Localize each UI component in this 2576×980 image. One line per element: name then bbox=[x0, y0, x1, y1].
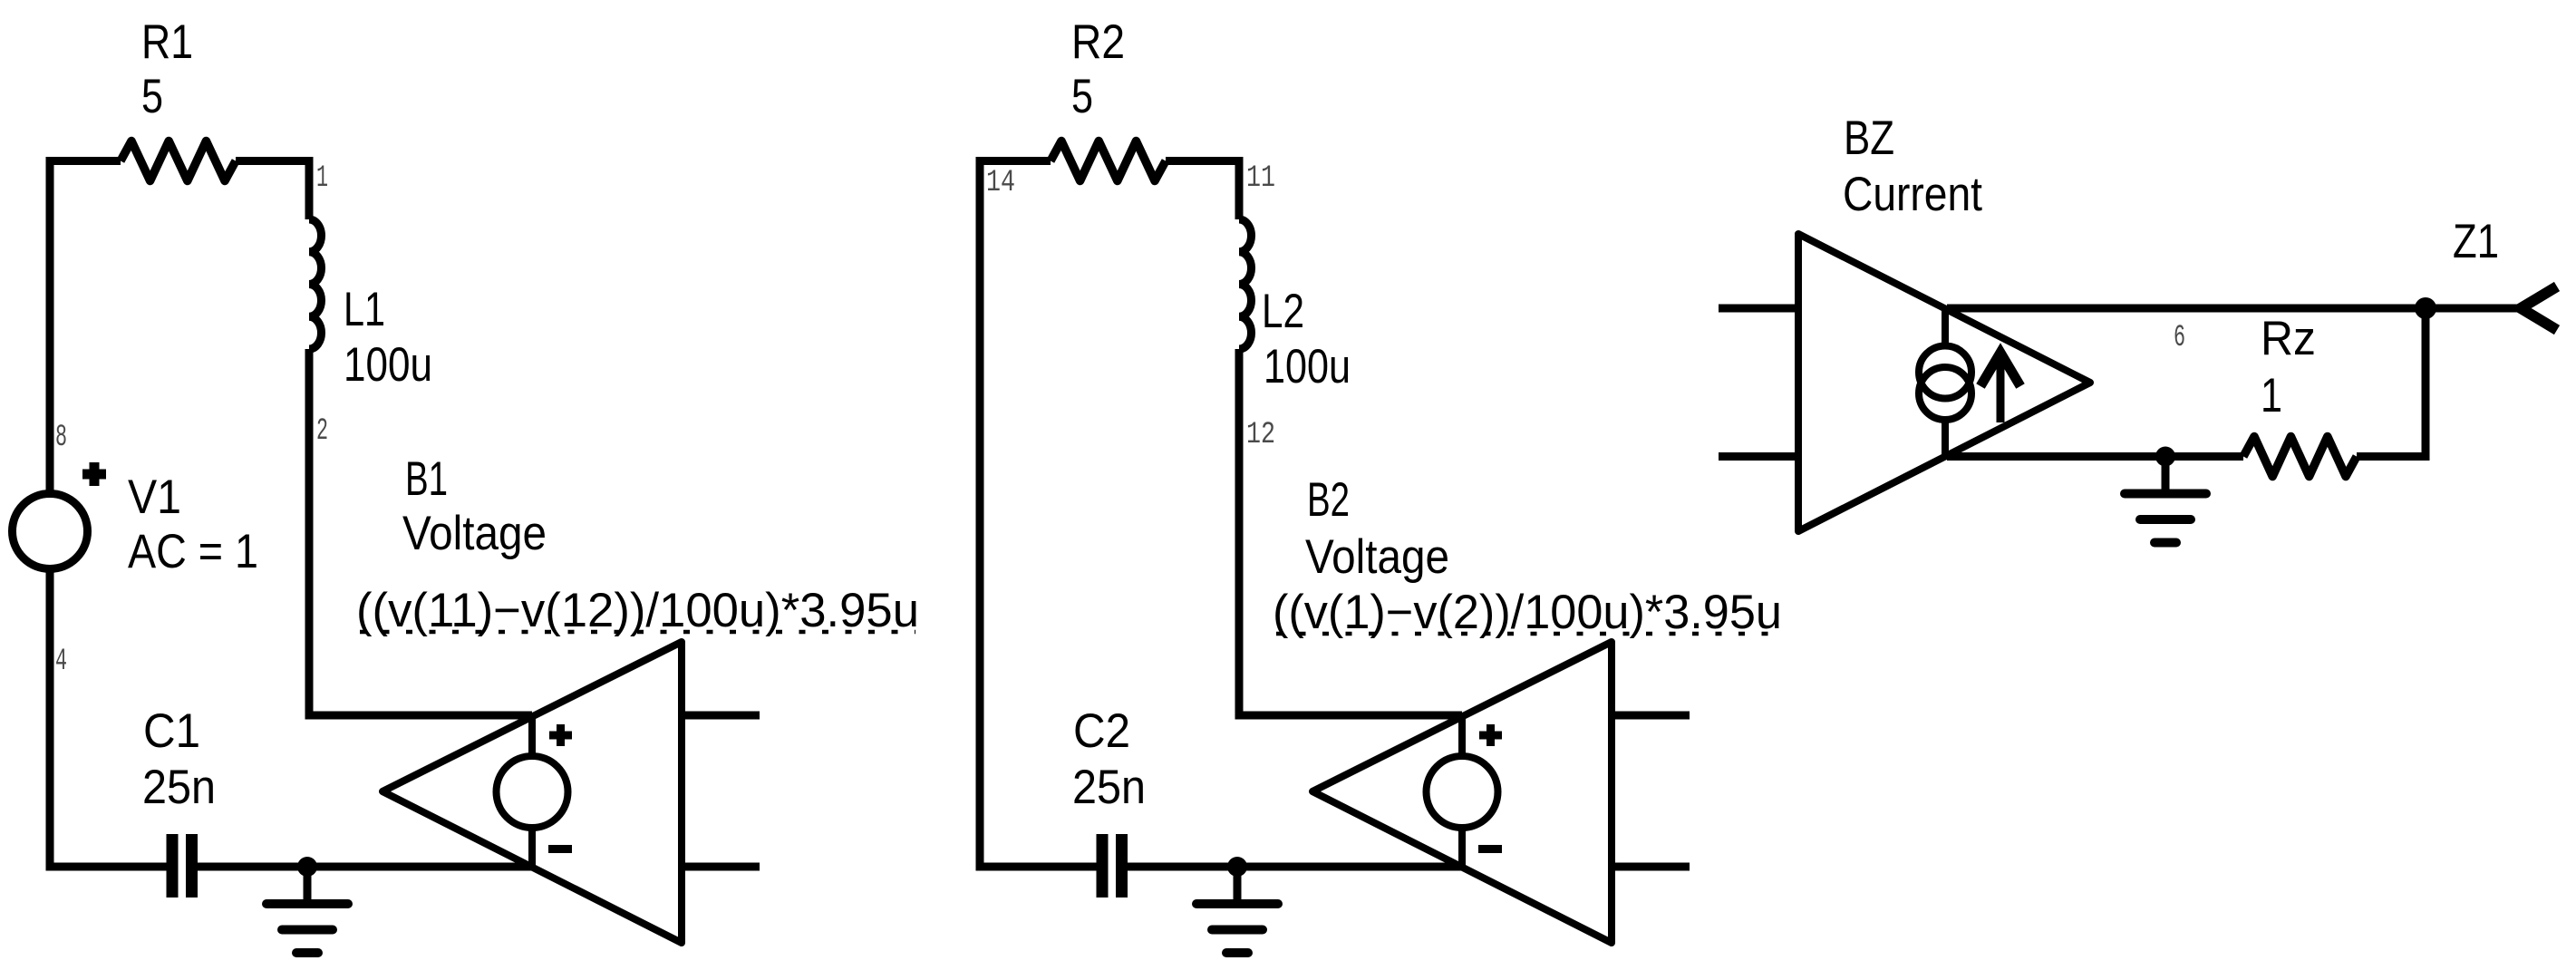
junction node (BZ ground) bbox=[2155, 447, 2175, 467]
wire: V1 bottom to bottom-left corner, right to C1 bbox=[50, 571, 172, 867]
resistor Rz bbox=[2243, 437, 2357, 477]
svg-text:BZ: BZ bbox=[1844, 112, 1894, 165]
wire: C1 to B1 - input bbox=[192, 863, 533, 871]
resistor R2 bbox=[1051, 141, 1166, 181]
behavioral source B1 triangle bbox=[383, 642, 682, 943]
svg-text:5: 5 bbox=[141, 70, 163, 123]
wire: top segment right of R1 bbox=[236, 157, 314, 165]
svg-text:25n: 25n bbox=[142, 761, 216, 814]
svg-text:R1: R1 bbox=[141, 15, 193, 69]
B2 source circle bbox=[1427, 756, 1498, 828]
svg-text:B1: B1 bbox=[405, 452, 448, 506]
BZ triangle bbox=[1798, 234, 2090, 531]
B1 expression dotted underline bbox=[360, 630, 915, 635]
wire: top segment left of R1 bbox=[46, 157, 121, 165]
B1 minus sign bbox=[548, 845, 572, 853]
BZ input wire bottom bbox=[1719, 452, 1798, 461]
svg-text:Rz: Rz bbox=[2261, 312, 2316, 365]
wire: down to L2 bbox=[1235, 161, 1244, 220]
wire: C2 to B2 - input bbox=[1122, 863, 1463, 871]
wire: Z1 to off-page connector bbox=[2426, 305, 2521, 313]
B2 + terminal stub bbox=[1458, 715, 1466, 756]
junction node (left ground) bbox=[297, 857, 317, 877]
B2 - terminal stub bbox=[1458, 828, 1466, 867]
svg-text:5: 5 bbox=[1071, 70, 1093, 123]
svg-text:((v(1)−v(2))/100u)*3.95u: ((v(1)−v(2))/100u)*3.95u bbox=[1273, 586, 1782, 639]
svg-text:R2: R2 bbox=[1071, 15, 1125, 69]
svg-text:1: 1 bbox=[316, 161, 328, 196]
B1 output wire bottom bbox=[682, 863, 760, 871]
svg-text:6: 6 bbox=[2174, 321, 2185, 355]
B1 plus sign bbox=[549, 724, 572, 746]
svg-text:14: 14 bbox=[986, 166, 1015, 200]
BZ bottom wire to ground and Rz bbox=[1947, 452, 2243, 461]
capacitor C2 bbox=[1102, 834, 1122, 898]
ground (left circuit) bbox=[304, 867, 312, 904]
B1 - terminal stub bbox=[528, 828, 536, 867]
wire: top segment left of R2 bbox=[976, 157, 1051, 165]
ground (middle circuit) bbox=[1234, 867, 1242, 904]
BZ current source stub bottom bbox=[1942, 416, 1949, 457]
voltage source V1 circle bbox=[13, 494, 88, 569]
svg-text:C2: C2 bbox=[1073, 704, 1130, 758]
B1 + terminal stub bbox=[528, 715, 536, 756]
svg-text:Z1: Z1 bbox=[2453, 215, 2499, 268]
svg-text:8: 8 bbox=[55, 421, 67, 455]
ground (BZ) bbox=[2162, 457, 2170, 494]
svg-text:L1: L1 bbox=[344, 283, 385, 336]
svg-text:2: 2 bbox=[316, 414, 328, 449]
B1 source circle bbox=[497, 756, 568, 828]
BZ current arrow shaft bbox=[1997, 359, 2005, 422]
BZ current source circle lower bbox=[1919, 367, 1971, 420]
behavioral source B2 triangle bbox=[1312, 642, 1612, 943]
svg-text:100u: 100u bbox=[1264, 340, 1351, 393]
resistor R1 bbox=[121, 141, 236, 181]
B1 output wire top bbox=[682, 712, 760, 720]
svg-text:V1: V1 bbox=[128, 471, 181, 524]
capacitor C1 bbox=[172, 834, 192, 898]
B2 expression dotted underline bbox=[1276, 632, 1778, 636]
inductor L2 bbox=[1239, 219, 1252, 349]
B2 output wire bottom bbox=[1612, 863, 1690, 871]
svg-text:AC = 1: AC = 1 bbox=[128, 525, 258, 578]
junction node (middle ground) bbox=[1227, 857, 1247, 877]
B2 minus sign bbox=[1478, 845, 1502, 853]
svg-text:Current: Current bbox=[1843, 168, 1982, 221]
svg-text:C1: C1 bbox=[143, 704, 200, 758]
BZ current source circle upper bbox=[1919, 346, 1971, 399]
svg-text:Voltage: Voltage bbox=[402, 507, 547, 560]
svg-text:11: 11 bbox=[1246, 161, 1275, 196]
wire: down to L1 bbox=[305, 161, 314, 220]
wire: L1 bottom down to corner, then right to B1 + input bbox=[309, 349, 532, 715]
svg-text:((v(11)−v(12))/100u)*3.95u: ((v(11)−v(12))/100u)*3.95u bbox=[356, 584, 919, 637]
wire: middle loop left side bbox=[980, 157, 1102, 867]
off-page connector arrow bbox=[2521, 286, 2557, 330]
B2 plus sign bbox=[1479, 724, 1502, 746]
node Z1 dot bbox=[2415, 297, 2436, 319]
svg-text:4: 4 bbox=[55, 645, 67, 679]
BZ output wire top (node 6) bbox=[1947, 305, 2426, 313]
B2 output wire top bbox=[1612, 712, 1690, 720]
BZ current source stub top bbox=[1942, 308, 1949, 349]
wire: top-left loop, V1 branch top bbox=[46, 165, 54, 495]
voltage source V1 plus sign bbox=[82, 462, 106, 486]
svg-text:1: 1 bbox=[2261, 369, 2282, 422]
BZ input wire top bbox=[1719, 305, 1798, 313]
wire: Rz to right corner and up to node Z1 bbox=[2357, 308, 2426, 457]
wire: L2 bottom down to corner, then right to B2 + input bbox=[1239, 349, 1462, 715]
inductor L1 bbox=[309, 219, 322, 349]
svg-text:25n: 25n bbox=[1072, 761, 1146, 814]
wire: top segment right of R2 bbox=[1166, 157, 1244, 165]
svg-text:Voltage: Voltage bbox=[1305, 530, 1449, 584]
svg-text:B2: B2 bbox=[1307, 473, 1350, 527]
svg-text:12: 12 bbox=[1246, 418, 1275, 452]
svg-text:100u: 100u bbox=[344, 338, 432, 392]
svg-text:L2: L2 bbox=[1262, 285, 1304, 338]
BZ current arrow head bbox=[1980, 353, 2020, 386]
